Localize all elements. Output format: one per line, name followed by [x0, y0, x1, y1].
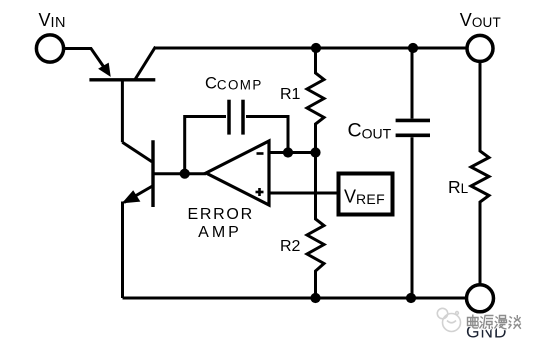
svg-text:CCOMP: CCOMP	[205, 75, 263, 93]
svg-text:R2: R2	[280, 238, 301, 255]
svg-text:ERROR: ERROR	[188, 206, 254, 223]
svg-text:R1: R1	[280, 86, 301, 103]
svg-text:AMP: AMP	[198, 224, 242, 241]
